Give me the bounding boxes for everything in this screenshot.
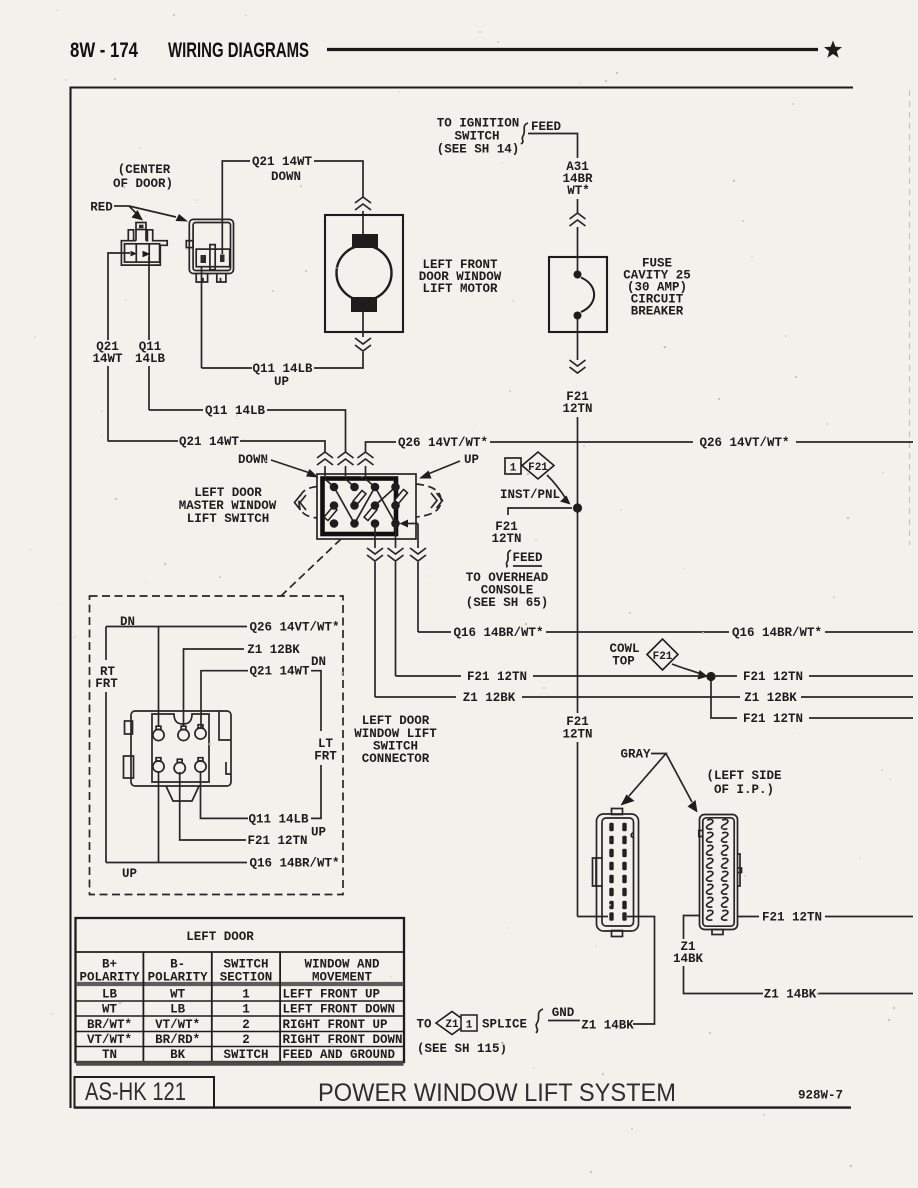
connector symbol 1-F21 instrument panel <box>505 458 521 474</box>
in-line chevrons left of switch <box>295 495 307 510</box>
dashed leader from switch to detail box <box>281 539 341 596</box>
connector C100 body <box>597 814 639 931</box>
label FUSE CAVITY 25 (30 AMP) CIRCUIT BREAKER <box>623 257 691 319</box>
wire Z1 detail run <box>184 649 245 727</box>
svg-text:(SEE SH 115): (SEE SH 115) <box>417 1042 507 1056</box>
junction node F21 cowl top <box>706 672 715 681</box>
svg-text:BREAKER: BREAKER <box>631 305 684 319</box>
wire label Q11 14LB UP <box>252 362 313 389</box>
svg-text:WT: WT <box>102 1003 118 1017</box>
svg-text:Q11 14LB: Q11 14LB <box>248 812 309 826</box>
svg-text:Q21 14WT: Q21 14WT <box>179 435 240 449</box>
svg-text:(SEE SH 14): (SEE SH 14) <box>437 143 520 157</box>
connector face terminal pins <box>153 725 206 774</box>
svg-text:WIRING DIAGRAMS: WIRING DIAGRAMS <box>168 39 309 62</box>
svg-text:12TN: 12TN <box>562 728 592 742</box>
svg-text:SECTION: SECTION <box>220 971 273 985</box>
wire F21 12TN horizontal run <box>396 675 462 677</box>
circuit breaker box (fuse cavity 25) <box>549 257 607 332</box>
wire Q16 middle segment <box>546 631 729 633</box>
svg-text:Q16 14BR/WT*: Q16 14BR/WT* <box>453 626 543 640</box>
connector C300 left latch bump <box>186 241 193 248</box>
wire F21 branch to frame edge <box>809 717 913 719</box>
wire Q11 stub into switch <box>345 466 347 476</box>
svg-text:LEFT FRONT DOWN: LEFT FRONT DOWN <box>283 1003 396 1017</box>
breaker terminal dot bottom <box>574 312 582 320</box>
svg-text:F21: F21 <box>653 651 673 663</box>
connector face bottom wedge <box>166 786 199 801</box>
svg-text:Z1 12BK: Z1 12BK <box>247 643 300 657</box>
wire Q11 vertical lower segment <box>148 366 150 410</box>
wire Q11 detail run <box>201 771 249 818</box>
connector C101 bottom tab <box>712 930 723 935</box>
label TO OVERHEAD CONSOLE (SEE SH 65) <box>466 571 549 610</box>
wire F21 right segment <box>713 675 737 677</box>
svg-text:(LEFT SIDE: (LEFT SIDE <box>706 769 781 783</box>
wire label F21 12TN main vertical <box>562 715 592 742</box>
connector C300 terminal cavity right <box>220 255 225 263</box>
wire Z1 to frame edge <box>817 993 913 995</box>
wire Q16 pin to bottom run <box>158 771 160 863</box>
svg-text:CONNECTOR: CONNECTOR <box>362 752 430 766</box>
in-line connector chevrons Q26 at switch <box>358 452 374 465</box>
in-line chevrons right of switch <box>431 493 443 508</box>
wire label F21 12TN (overhead feed) <box>491 520 521 546</box>
motor M1 armature circle <box>337 246 392 301</box>
connector C100 top tab <box>612 809 623 815</box>
connector face inner cavity with key notch <box>152 714 209 782</box>
wire F21 out of connector C101 <box>738 916 760 918</box>
bracket RT FRT lower vertical <box>105 692 107 863</box>
svg-text:LIFT MOTOR: LIFT MOTOR <box>422 282 498 296</box>
svg-text:LEFT DOOR: LEFT DOOR <box>186 930 254 944</box>
svg-text:LEFT FRONT UP: LEFT FRONT UP <box>283 988 381 1002</box>
svg-text:OF DOOR): OF DOOR) <box>113 177 173 191</box>
in-line connector chevrons below motor <box>355 338 371 351</box>
wire label Q21 14WT DOWN <box>252 155 313 184</box>
connector face left tab upper <box>125 721 133 734</box>
svg-text:UP: UP <box>464 453 479 467</box>
svg-text:14WT: 14WT <box>92 352 123 366</box>
header rule line <box>327 48 818 51</box>
wire label A31 14BR WT* <box>562 160 593 198</box>
connector C300 center key column <box>210 245 215 270</box>
svg-text:Q11 14LB: Q11 14LB <box>205 404 266 418</box>
label TO IGNITION SWITCH (SEE SH 14) <box>437 117 520 157</box>
svg-text:SPLICE: SPLICE <box>482 1018 527 1032</box>
svg-text:(CENTER: (CENTER <box>118 163 171 177</box>
svg-text:RED: RED <box>90 201 113 215</box>
wire into motor top <box>362 211 364 236</box>
wire Q11 UP to connector C300 <box>202 267 253 368</box>
svg-text:LIFT SWITCH: LIFT SWITCH <box>187 512 270 526</box>
svg-text:(SEE SH 65): (SEE SH 65) <box>466 596 549 610</box>
wire F21 middle segment <box>533 675 709 677</box>
svg-text:VT/WT*: VT/WT* <box>155 1018 200 1032</box>
wire Q26 14VT/WT* horizontal run left part <box>366 442 397 452</box>
label COWL TOP <box>609 642 639 669</box>
header star marker <box>824 41 842 58</box>
wire A31 segment <box>577 199 579 213</box>
in-line connector chevrons above motor <box>355 197 371 210</box>
splice symbol pin 1 box <box>461 1015 477 1031</box>
wire F21 into connector C100 <box>578 916 609 918</box>
in-line connector chevrons Q11 at switch <box>338 452 354 465</box>
ground brace squiggle <box>536 1009 543 1033</box>
svg-text:F21 12TN: F21 12TN <box>743 712 803 726</box>
svg-text:WT: WT <box>170 988 186 1002</box>
svg-text:1: 1 <box>242 1003 250 1017</box>
wire Z1 from switch pin <box>374 524 376 549</box>
bracket RT FRT left vertical <box>105 627 107 661</box>
svg-text:UP: UP <box>274 375 289 389</box>
svg-text:Z1 14BK: Z1 14BK <box>581 1019 634 1033</box>
diagram frame right edge (faint) <box>909 90 911 545</box>
svg-text:POLARITY: POLARITY <box>79 971 140 985</box>
svg-text:Q26 14VT/WT*: Q26 14VT/WT* <box>699 436 789 450</box>
svg-text:LEFT DOOR: LEFT DOOR <box>362 714 430 728</box>
feed underline overhead <box>513 565 542 567</box>
svg-text:TN: TN <box>102 1048 117 1062</box>
connector C100 index notch <box>631 833 633 838</box>
svg-text:1: 1 <box>466 1020 473 1032</box>
label (LEFT SIDE OF I.P.) <box>706 769 781 797</box>
wire pin1 to Q26 line <box>158 627 160 728</box>
label LT FRT <box>314 737 337 764</box>
wire Z1 out of connector C100 <box>627 917 655 1025</box>
wire Q21 stub into switch <box>324 466 326 476</box>
svg-text:12TN: 12TN <box>562 402 592 416</box>
svg-text:Z1: Z1 <box>445 1019 459 1031</box>
switch S1 inner heavy outline <box>323 479 397 535</box>
wire Q26 from switch <box>365 466 367 476</box>
svg-text:SWITCH: SWITCH <box>223 1048 268 1062</box>
wire F21 main vertical upper segment <box>577 417 579 504</box>
svg-text:Z1 12BK: Z1 12BK <box>744 691 797 705</box>
svg-text:SWITCH: SWITCH <box>223 958 268 972</box>
svg-text:FEED: FEED <box>512 551 543 565</box>
connector face body (switch connector) <box>131 711 231 786</box>
connector C101 right step <box>738 854 742 886</box>
connector C100 terminal slots <box>609 823 626 921</box>
connector C101 terminal sockets <box>707 819 728 920</box>
connector C300 terminal block <box>196 249 230 267</box>
connector C101 left notch <box>699 831 703 837</box>
bracket LT FRT lower <box>311 765 321 818</box>
svg-text:OF I.P.): OF I.P.) <box>714 783 774 797</box>
svg-text:AS-HK 121: AS-HK 121 <box>85 1078 186 1106</box>
svg-text:UP: UP <box>122 867 137 881</box>
diagram frame bottom edge <box>74 1106 851 1108</box>
wire F21 detail run <box>180 772 246 840</box>
svg-text:VT/WT*: VT/WT* <box>87 1033 132 1047</box>
motor M1 brush bottom <box>351 297 377 312</box>
arrow from 1-F21 to junction <box>547 475 566 499</box>
connector C100 inner wall <box>602 818 634 926</box>
wire F21 branch from junction down <box>711 681 737 718</box>
connector C200 terminal in tower <box>139 225 144 229</box>
svg-text:LEFT DOOR: LEFT DOOR <box>194 486 262 500</box>
label LEFT DOOR MASTER WINDOW LIFT SWITCH <box>179 486 277 526</box>
switch S1 internal circuit lines <box>325 479 396 524</box>
junction node F21 at INST branch <box>573 503 582 512</box>
diagram frame left edge <box>69 87 71 1108</box>
svg-text:1: 1 <box>242 988 250 1002</box>
svg-text:Q26 14VT/WT*: Q26 14VT/WT* <box>249 621 339 635</box>
svg-text:2: 2 <box>242 1018 250 1032</box>
wire Q16 to frame edge <box>825 631 913 633</box>
svg-text:1: 1 <box>510 463 517 475</box>
connector face left tab lower <box>124 756 134 778</box>
svg-text:POWER WINDOW LIFT SYSTEM: POWER WINDOW LIFT SYSTEM <box>318 1079 676 1107</box>
svg-text:F21: F21 <box>528 462 548 474</box>
svg-text:FEED AND GROUND: FEED AND GROUND <box>283 1048 396 1062</box>
svg-text:UP: UP <box>311 826 326 840</box>
svg-text:INST/PNL: INST/PNL <box>500 488 560 502</box>
arrow from cowl F21 to junction <box>672 664 701 674</box>
connector C101 inner wall <box>703 818 734 926</box>
connector C101 body <box>700 815 738 930</box>
feed brace squiggle <box>521 123 528 144</box>
wire Z1 out of connector C101 <box>684 916 701 940</box>
wire Q16 detail bottom run <box>106 862 247 864</box>
ground underline <box>548 1020 580 1022</box>
svg-text:2: 2 <box>242 1033 250 1047</box>
wire FEED to A31 drop <box>528 134 578 159</box>
svg-text:BK: BK <box>170 1048 186 1062</box>
wire label Z1 14BK vertical <box>673 940 704 966</box>
svg-text:MOVEMENT: MOVEMENT <box>312 971 373 985</box>
splice symbol Z1 diamond <box>436 1012 468 1035</box>
wire label Q11 14LB vertical run <box>135 340 166 366</box>
svg-text:GRAY: GRAY <box>620 748 651 762</box>
svg-text:FRT: FRT <box>95 677 118 691</box>
switch S1 contact bars <box>324 506 337 520</box>
svg-text:928W-7: 928W-7 <box>798 1089 843 1103</box>
wire Q21 detail run <box>201 671 248 727</box>
svg-text:LB: LB <box>102 988 118 1002</box>
label (CENTER OF DOOR) <box>113 163 173 191</box>
motor M1 left front door window lift motor box <box>325 215 403 332</box>
wire F21 to frame edge <box>825 916 913 918</box>
arrow RED to connector 2 <box>129 206 176 217</box>
svg-text:Q16 14BR/WT*: Q16 14BR/WT* <box>249 857 339 871</box>
svg-text:B+: B+ <box>102 958 117 972</box>
connector C300 terminal cavity left <box>201 255 207 263</box>
svg-text:BR/RD*: BR/RD* <box>155 1033 200 1047</box>
wire Z1 12BK horizontal run <box>375 696 456 698</box>
wire label F21 12TN below breaker <box>562 390 592 416</box>
svg-text:Q11 14LB: Q11 14LB <box>252 362 313 376</box>
svg-text:Q26 14VT/WT*: Q26 14VT/WT* <box>398 436 488 450</box>
label RT FRT <box>95 665 118 691</box>
connector C300 outer housing <box>189 219 233 273</box>
svg-text:Z1 12BK: Z1 12BK <box>463 691 516 705</box>
wire Z1 to frame edge <box>801 696 913 698</box>
connector C200 terminal arrow left <box>131 251 138 257</box>
wire Z1 middle segment <box>522 696 740 698</box>
wire Q21 vertical lower segment <box>107 366 109 441</box>
connector C300 mounting feet <box>196 274 226 283</box>
connector face right step <box>219 711 231 774</box>
switch S1 output arrow to Q16 <box>406 523 418 525</box>
switch S1 right dashed boot <box>416 484 441 517</box>
svg-text:GND: GND <box>552 1006 575 1020</box>
svg-text:F21 12TN: F21 12TN <box>467 670 527 684</box>
breaker terminal dot top <box>574 271 582 279</box>
svg-text:DOWN: DOWN <box>271 170 301 184</box>
svg-text:8W - 174: 8W - 174 <box>70 39 138 62</box>
wire motor to Q11 UP run <box>314 352 363 368</box>
switch S1 outer outline <box>317 474 416 539</box>
wire label Q21 14WT vertical run <box>92 340 123 366</box>
svg-text:WT*: WT* <box>567 184 590 198</box>
svg-text:F21 12TN: F21 12TN <box>743 670 803 684</box>
wire F21 to frame edge <box>809 675 913 677</box>
wire Q26 horizontal to frame edge <box>796 441 913 443</box>
svg-text:RIGHT FRONT UP: RIGHT FRONT UP <box>283 1018 388 1032</box>
wire Q11 to switch <box>267 410 346 452</box>
wire F21 main vertical lower segment <box>577 742 579 917</box>
svg-text:TO: TO <box>416 1018 432 1032</box>
table data rows <box>87 988 403 1063</box>
wire Q21 DOWN from C300 to motor <box>222 161 250 254</box>
wire A31 into breaker <box>577 227 579 272</box>
svg-text:14BK: 14BK <box>673 952 704 966</box>
svg-text:WINDOW AND: WINDOW AND <box>304 958 380 972</box>
wire Q26 detail top run <box>106 626 247 628</box>
wire F21 main vertical middle segment <box>577 508 579 713</box>
svg-text:Q21 14WT: Q21 14WT <box>249 665 310 679</box>
wire INST branch horizontal <box>508 508 572 515</box>
wire Q11 from C200 right terminal <box>148 257 150 340</box>
wire Q21 from C200 left terminal <box>108 253 130 340</box>
wire breaker output F21 <box>577 318 579 360</box>
in-line connector chevrons on A31 <box>570 213 586 226</box>
wire Q11 14LB horizontal run <box>149 409 203 411</box>
svg-text:TO IGNITION: TO IGNITION <box>437 117 520 131</box>
motor M1 brush top <box>352 234 378 248</box>
svg-text:B-: B- <box>170 958 185 972</box>
wire Q21 to motor top <box>314 161 363 197</box>
switch S1 left dashed boot <box>299 487 317 519</box>
wire Q16 14BR/WT* horizontal run <box>418 631 451 633</box>
svg-text:TOP: TOP <box>612 655 635 669</box>
feed brace squiggle overhead <box>506 550 511 567</box>
svg-text:FRT: FRT <box>314 750 337 764</box>
svg-text:POLARITY: POLARITY <box>148 971 209 985</box>
connector symbol F21 cowl top diamond <box>647 639 678 670</box>
svg-text:Q16 14BR/WT*: Q16 14BR/WT* <box>732 626 822 640</box>
label LEFT DOOR WINDOW LIFT SWITCH CONNECTOR <box>354 714 437 766</box>
breaker contact arc <box>581 278 594 313</box>
footer sheet id box AS-HK 121 <box>75 1077 215 1108</box>
svg-text:14LB: 14LB <box>135 352 166 366</box>
wire Q21 14WT horizontal run <box>108 440 179 442</box>
connector C100 bottom tab <box>612 931 623 937</box>
connector C200 terminal arrow right <box>143 251 151 257</box>
svg-text:SWITCH: SWITCH <box>454 130 499 144</box>
dashed detail box outline <box>90 596 344 895</box>
svg-text:LB: LB <box>170 1003 186 1017</box>
svg-text:12TN: 12TN <box>491 532 521 546</box>
table column headers <box>79 958 380 985</box>
connector C200 terminal cells <box>125 244 160 262</box>
wire Q26 horizontal middle <box>490 441 693 443</box>
wire Q16 from switch arrow <box>417 524 419 549</box>
table LEFT DOOR switch logic <box>76 918 405 1064</box>
svg-text:Z1 14BK: Z1 14BK <box>764 988 817 1002</box>
connector C200 housing tower square <box>136 223 146 230</box>
wire Q21 to switch <box>240 441 325 452</box>
in-line connector chevrons Q21 at switch <box>317 452 333 465</box>
svg-text:Q21 14WT: Q21 14WT <box>252 155 313 169</box>
wire motor bottom lead <box>362 310 364 337</box>
connector C300 inner wall <box>193 223 230 271</box>
label LEFT FRONT DOOR WINDOW LIFT MOTOR <box>419 258 502 296</box>
diagram frame top edge <box>70 86 854 88</box>
in-line connector chevrons below breaker <box>570 360 586 373</box>
wire F21 from switch pin <box>395 524 397 549</box>
svg-text:DN: DN <box>311 655 326 669</box>
svg-text:MASTER WINDOW: MASTER WINDOW <box>179 499 277 513</box>
svg-text:BR/WT*: BR/WT* <box>87 1018 132 1032</box>
connector C100 left latch tab <box>593 858 603 886</box>
connector C200 housing outline <box>121 230 167 266</box>
svg-text:FEED: FEED <box>531 120 562 134</box>
arrow RED to connector 1 <box>129 206 136 213</box>
svg-text:F21 12TN: F21 12TN <box>762 911 822 925</box>
svg-text:RIGHT FRONT DOWN: RIGHT FRONT DOWN <box>283 1033 403 1047</box>
wire Z1 down segment <box>684 966 764 994</box>
svg-text:DOWN: DOWN <box>238 453 268 467</box>
svg-text:F21 12TN: F21 12TN <box>247 834 307 848</box>
bracket LT FRT upper <box>311 671 321 731</box>
leader line from RED <box>114 205 129 207</box>
switch S1 terminal dots <box>330 483 400 528</box>
